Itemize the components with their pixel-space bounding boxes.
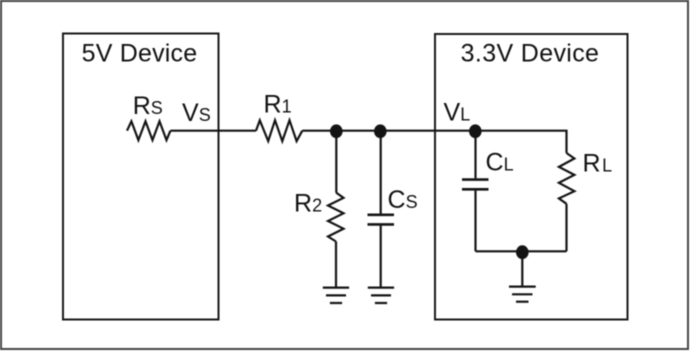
node VL junction dot xyxy=(469,124,482,138)
wire to ground 3 xyxy=(521,252,523,287)
wire R1 to node A xyxy=(302,130,336,132)
svg-text:3.3V Device: 3.3V Device xyxy=(461,40,600,68)
wire VL down to CL xyxy=(474,131,476,178)
node A junction dot xyxy=(330,124,343,138)
wire node A to node B xyxy=(337,130,381,132)
5V Device box xyxy=(63,34,219,320)
wire VL to top-right corner and down to RL xyxy=(476,131,567,153)
resistor R2 xyxy=(328,193,344,242)
resistor RL xyxy=(559,153,575,204)
wire R2 to ground 1 xyxy=(335,242,337,288)
3.3V Device box xyxy=(435,34,628,320)
bottom wire CL to RL xyxy=(476,250,567,252)
wire node B to node VL xyxy=(381,130,476,132)
resistor R1 xyxy=(256,120,302,141)
node B junction dot xyxy=(374,124,387,138)
wire CS to ground 2 xyxy=(380,226,382,288)
wire node A down to R2 xyxy=(335,131,337,193)
wire CL bottom xyxy=(474,191,476,252)
bottom junction dot xyxy=(516,245,529,259)
ground 3 xyxy=(509,286,536,288)
capacitor CS xyxy=(368,214,395,217)
wire node B down to CS xyxy=(380,131,382,214)
ground 1 xyxy=(323,287,349,289)
capacitor CL xyxy=(462,178,489,181)
resistor RS xyxy=(127,121,170,140)
svg-text:5V Device: 5V Device xyxy=(82,40,198,68)
wire RL bottom xyxy=(565,204,567,252)
ground 2 xyxy=(368,287,394,289)
wire RS to R1 xyxy=(170,130,256,132)
